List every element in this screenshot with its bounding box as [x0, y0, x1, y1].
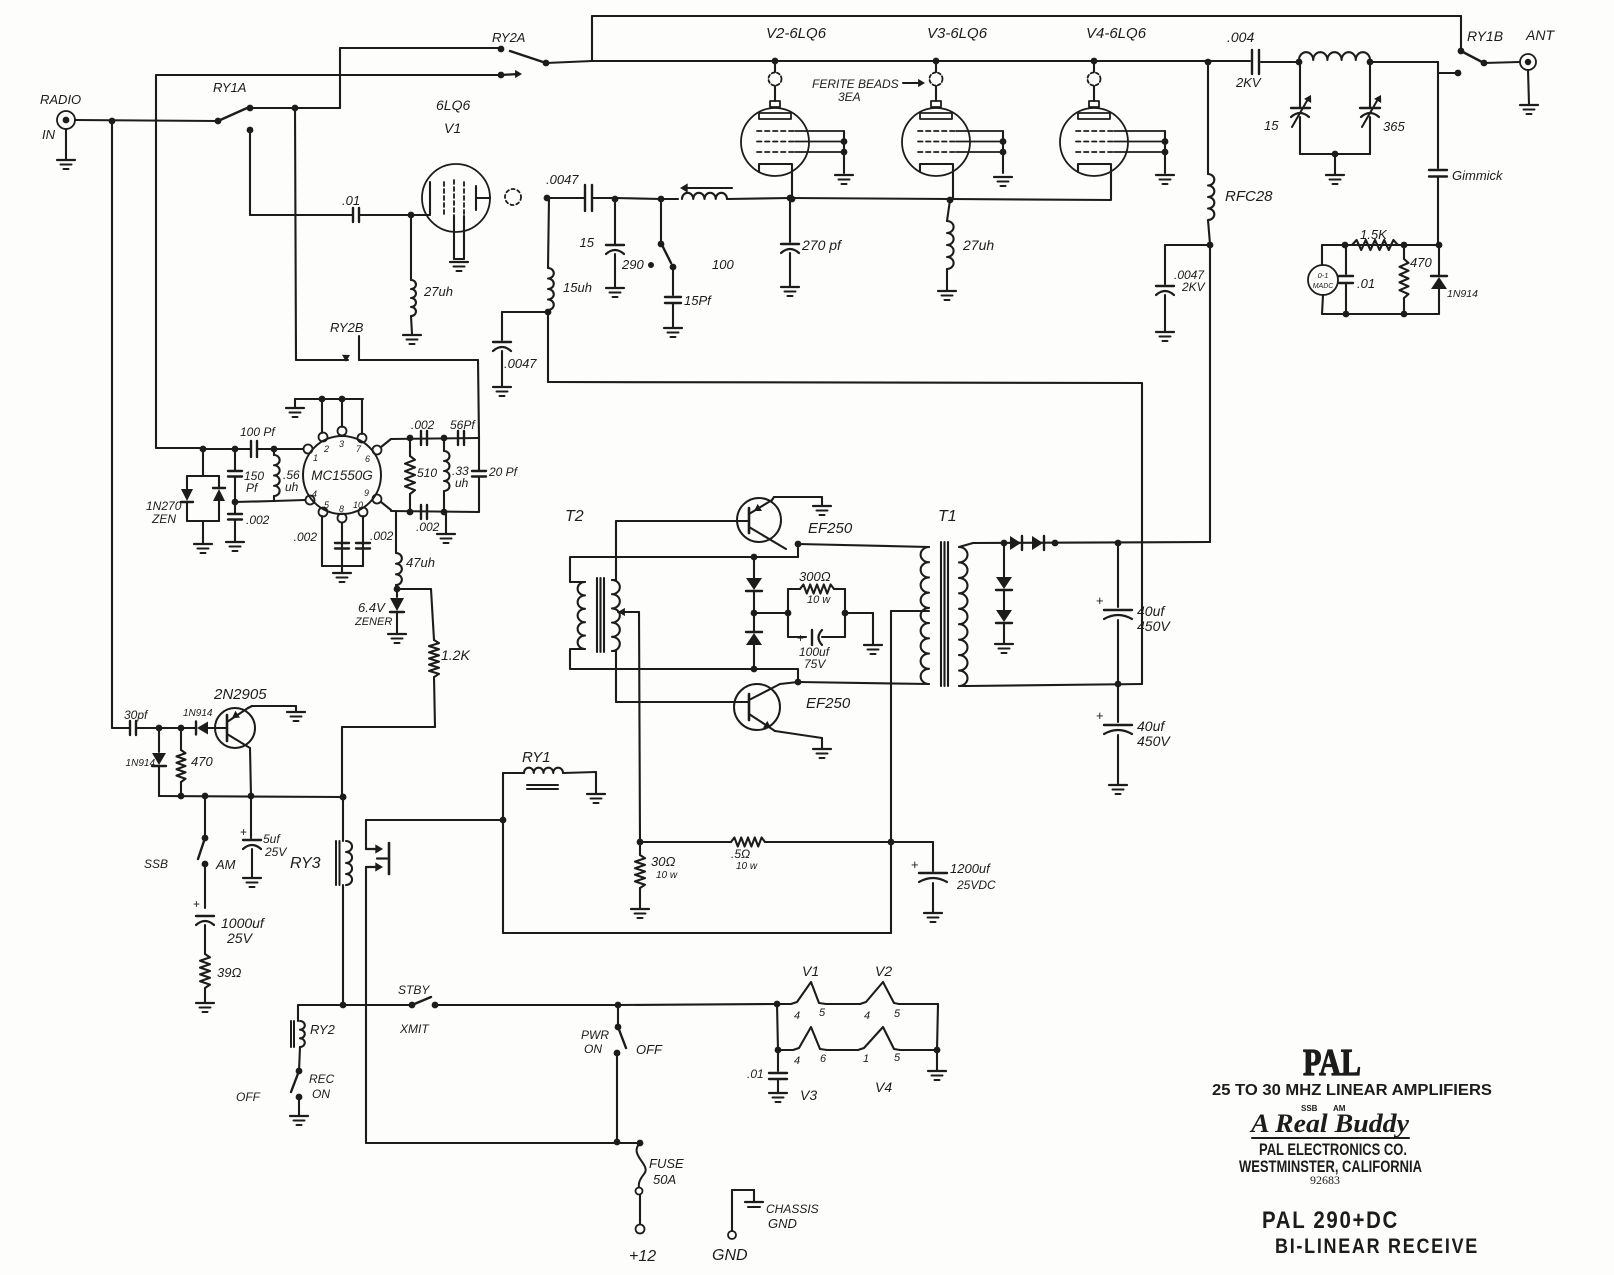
svg-text:RY1B: RY1B	[1467, 28, 1503, 44]
ground (mixer bottom)	[333, 573, 351, 582]
wire V1 grids to ground	[454, 216, 464, 259]
svg-text:10: 10	[353, 500, 363, 510]
ground (.0047)	[493, 351, 511, 396]
wire supply left vert	[502, 773, 504, 933]
node out2	[441, 435, 448, 442]
svg-text:T2: T2	[565, 508, 584, 525]
svg-text:3EA: 3EA	[838, 90, 861, 104]
wire supply right vert	[890, 842, 892, 933]
svg-text:.002: .002	[411, 418, 435, 432]
tank inductor	[1296, 52, 1374, 65]
wire tank to RY1B	[1370, 61, 1438, 63]
node 15uh bottom	[545, 309, 552, 316]
svg-text:15: 15	[1264, 118, 1279, 133]
svg-text:270 pf: 270 pf	[801, 237, 843, 253]
svg-text:2KV: 2KV	[1181, 280, 1206, 294]
resistor 1.5K	[1352, 227, 1398, 250]
svg-text:92683: 92683	[1310, 1173, 1340, 1187]
node bias mid	[751, 610, 758, 617]
diode zener 6.4V	[354, 589, 404, 633]
title Westminster	[1239, 1157, 1422, 1176]
svg-text:REC: REC	[309, 1072, 335, 1086]
wire heater feed	[618, 1004, 777, 1005]
svg-text:1200uf: 1200uf	[950, 861, 991, 876]
wire Q3 collector join	[780, 682, 798, 684]
wire zener node to 1.2K	[397, 589, 434, 640]
wire T2 primary bottom	[570, 649, 798, 682]
svg-text:V4: V4	[875, 1079, 892, 1095]
capacitor 20pf	[472, 438, 519, 512]
diode pair 1N270	[146, 449, 225, 543]
node fuse bus	[614, 1139, 621, 1146]
svg-text:40uf: 40uf	[1137, 718, 1166, 734]
node mixer in	[200, 446, 207, 453]
svg-text:SSB: SSB	[144, 857, 168, 871]
svg-text:FUSE: FUSE	[649, 1156, 684, 1171]
node Q2 collector	[795, 541, 802, 548]
svg-text:1.5K: 1.5K	[1360, 227, 1388, 242]
label SSB AM	[1301, 1104, 1346, 1113]
svg-text:RADIO: RADIO	[40, 92, 81, 107]
diode 1N914 (vert)	[126, 728, 166, 796]
transformer T2	[565, 508, 620, 652]
wire T2 sec top to base	[612, 521, 749, 580]
wire 15uh to .0047 bypass	[502, 312, 548, 340]
ground (RADIO IN)	[57, 160, 75, 169]
wire xmit return	[366, 1140, 643, 1147]
title 92683	[1310, 1173, 1340, 1187]
svg-text:40uf: 40uf	[1137, 603, 1166, 619]
svg-text:+: +	[193, 897, 200, 911]
svg-text:50A: 50A	[653, 1172, 676, 1187]
svg-text:RY1A: RY1A	[213, 80, 246, 95]
ground (clamp)	[995, 644, 1013, 653]
svg-text:V4-6LQ6: V4-6LQ6	[1086, 25, 1147, 42]
capacitor .0047 (plate coupling)	[546, 172, 615, 211]
svg-text:PWR: PWR	[581, 1028, 609, 1042]
svg-text:uh: uh	[285, 480, 299, 494]
node PWR	[615, 1002, 622, 1009]
svg-text:25 TO 30 MHZ LINEAR AMPLIFIERS: 25 TO 30 MHZ LINEAR AMPLIFIERS	[1212, 1082, 1492, 1099]
capacitor .002 (out top)	[411, 418, 435, 445]
capacitor 5uf 25V	[240, 796, 287, 877]
svg-text:.002: .002	[370, 529, 394, 543]
svg-text:RY2B: RY2B	[330, 320, 364, 335]
node 47uh bottom	[394, 586, 401, 593]
svg-text:T1: T1	[938, 508, 957, 525]
ground (ANT)	[1520, 105, 1538, 114]
svg-text:V2: V2	[875, 963, 892, 979]
ground (15pf)	[664, 328, 682, 337]
wire up to RY2A feed	[340, 48, 501, 108]
ferrite bead (V1 plate)	[505, 189, 521, 205]
wire RY2B link	[296, 320, 479, 438]
svg-text:V1: V1	[444, 120, 461, 136]
resistor 470 (Q1)	[177, 728, 214, 796]
svg-text:4: 4	[312, 489, 317, 499]
svg-text:.01: .01	[342, 193, 360, 208]
transformer T1	[921, 508, 968, 686]
svg-text:1N270: 1N270	[146, 499, 182, 513]
inductor 47uh	[396, 512, 435, 589]
svg-text:1: 1	[863, 1053, 869, 1065]
ground (39 ohm)	[196, 1003, 214, 1012]
svg-text:.5Ω: .5Ω	[731, 847, 750, 861]
svg-text:ZENER: ZENER	[354, 616, 392, 628]
ground (40uf lower)	[1109, 785, 1127, 794]
wire Q1 emitter	[248, 706, 296, 711]
transistor Q3 EF250 (lower)	[734, 684, 851, 731]
wire left column down	[111, 121, 113, 728]
wire HV vertical	[1209, 245, 1211, 542]
ground (V4 grids)	[1156, 175, 1174, 184]
capacitor 56pf	[450, 418, 476, 445]
wire RY1A NO to top corner	[250, 107, 340, 109]
svg-text:2N2905: 2N2905	[213, 686, 267, 703]
svg-text:27uh: 27uh	[423, 284, 453, 299]
wire heater top right	[899, 1004, 938, 1050]
wire meter rail bottom	[1322, 311, 1439, 318]
switch PWR ON/OFF	[581, 1005, 663, 1142]
node supply right	[888, 839, 895, 846]
svg-text:0-1: 0-1	[1318, 271, 1329, 280]
svg-text:Pf: Pf	[246, 481, 259, 495]
svg-text:9: 9	[364, 488, 369, 498]
capacitor 40uf 450V (upper)	[1096, 543, 1171, 684]
svg-text:STBY: STBY	[398, 983, 430, 997]
svg-text:10 w: 10 w	[736, 861, 758, 872]
svg-text:15Pf: 15Pf	[684, 293, 712, 308]
svg-text:.01: .01	[747, 1067, 764, 1081]
inductor 15uh	[548, 268, 592, 312]
resistor 470 (meter)	[1400, 245, 1433, 314]
svg-text:RY3: RY3	[290, 855, 321, 872]
svg-text:BI-LINEAR RECEIVE: BI-LINEAR RECEIVE	[1275, 1235, 1479, 1258]
diode 1N914 (horiz)	[159, 708, 227, 735]
ground (V1 grids)	[450, 262, 468, 271]
capacitor .01 (heater)	[747, 1050, 787, 1092]
diode D1 (bias)	[746, 557, 762, 612]
diode D4 (rect)	[1032, 536, 1044, 550]
title PAL Electronics	[1259, 1140, 1407, 1159]
svg-text:.01: .01	[1357, 276, 1375, 291]
tube V2 6LQ6	[741, 25, 847, 199]
wire stby bus	[298, 1002, 412, 1009]
svg-text:CHASSIS: CHASSIS	[766, 1202, 819, 1216]
svg-text:.002: .002	[416, 520, 440, 534]
ground (.0047 2KV)	[1156, 332, 1174, 341]
svg-text:+12: +12	[629, 1248, 656, 1265]
ground (27uh V1)	[403, 335, 421, 344]
svg-text:RFC28: RFC28	[1225, 188, 1273, 205]
capacitor .002 (pin10)	[356, 529, 394, 549]
relay contacts RY1B	[1438, 28, 1503, 76]
svg-text:PAL 290+DC: PAL 290+DC	[1262, 1207, 1399, 1234]
title PAL 290+DC	[1262, 1207, 1399, 1234]
svg-text:4: 4	[794, 1010, 800, 1022]
node T2 bottom junction	[751, 666, 758, 673]
capacitor 15pf	[665, 267, 712, 327]
svg-text:8: 8	[339, 504, 344, 514]
switch SSB/AM	[144, 796, 236, 872]
svg-text:V3-6LQ6: V3-6LQ6	[927, 25, 988, 42]
capacitor 30pf	[112, 708, 159, 735]
svg-text:365: 365	[1383, 119, 1405, 134]
svg-text:MC1550G: MC1550G	[311, 468, 373, 483]
svg-text:.0047: .0047	[546, 172, 579, 187]
wire T2 center tap	[618, 608, 640, 842]
resistor .5 ohm 10w	[640, 838, 891, 873]
inductor 27uh (V3)	[947, 200, 994, 290]
svg-text:2KV: 2KV	[1235, 75, 1262, 90]
svg-text:AM: AM	[215, 857, 236, 872]
ground (Q1 emitter)	[287, 712, 305, 721]
wire tank bottom	[1300, 151, 1370, 174]
node 300 net right	[842, 610, 849, 617]
svg-text:ON: ON	[584, 1042, 602, 1056]
svg-text:V1: V1	[802, 963, 819, 979]
node V2 cathode	[787, 195, 794, 202]
wire base bias bus	[159, 793, 346, 801]
resistor 30 ohm 10w	[635, 842, 678, 908]
svg-text:uh: uh	[455, 476, 469, 490]
plate bus wire	[592, 60, 1250, 62]
switch 100	[658, 199, 735, 272]
svg-text:V2-6LQ6: V2-6LQ6	[766, 25, 827, 42]
node 40uf mid	[1115, 681, 1122, 688]
svg-text:39Ω: 39Ω	[217, 965, 241, 980]
node sw100	[658, 196, 665, 203]
svg-text:290: 290	[621, 257, 644, 272]
capacitor .0047 (screen bypass)	[493, 342, 537, 371]
wire supply bottom rail	[503, 932, 891, 934]
terminal GND	[712, 1190, 754, 1264]
wire HV horizontal	[973, 542, 1210, 543]
ground (RY1)	[587, 794, 605, 803]
svg-text:1N914: 1N914	[183, 708, 213, 719]
capacitor .0047 2KV (HV bypass)	[1156, 245, 1210, 331]
inductor .56uh	[274, 449, 300, 501]
svg-text:.0047: .0047	[504, 356, 537, 371]
capacitor .01 (V1 input)	[342, 193, 360, 222]
node RY1 feed	[500, 817, 507, 824]
svg-text:75V: 75V	[804, 657, 826, 671]
capacitor .002 (out bottom)	[416, 505, 440, 534]
capacitor .004 2KV	[1227, 29, 1299, 90]
svg-text:RY2A: RY2A	[492, 30, 525, 45]
svg-text:1N914: 1N914	[126, 758, 156, 769]
svg-text:6.4V: 6.4V	[358, 600, 386, 615]
svg-text:1.2K: 1.2K	[441, 647, 470, 663]
wire bias to 300 ohm net	[754, 610, 791, 617]
resistor 39 ohm	[200, 954, 241, 1002]
node 30pf out	[156, 725, 163, 732]
svg-text:OFF: OFF	[636, 1042, 663, 1057]
script A Real Buddy	[1249, 1109, 1410, 1138]
switch REC ON/OFF	[236, 1068, 335, 1115]
ground (V3 grids)	[994, 177, 1012, 186]
ground (RY2)	[290, 1116, 308, 1125]
wire .01 to V1 cathode	[360, 212, 430, 219]
wire T1 primary bottom	[798, 682, 929, 684]
svg-text:56Pf: 56Pf	[450, 418, 476, 432]
svg-text:RY2: RY2	[310, 1022, 336, 1037]
svg-text:5: 5	[819, 1007, 826, 1019]
svg-text:4: 4	[794, 1055, 800, 1067]
heater V1	[777, 963, 826, 1022]
ground (27uh V3)	[938, 291, 956, 300]
node out1	[407, 435, 414, 442]
svg-text:10 w: 10 w	[656, 870, 678, 881]
variable capacitor 15	[1264, 62, 1311, 154]
svg-text:300Ω: 300Ω	[799, 569, 831, 584]
diode 1N914 (meter)	[1431, 245, 1478, 314]
svg-text:A Real Buddy: A Real Buddy	[1249, 1109, 1410, 1138]
node T2 top junction	[751, 554, 758, 561]
title BI-LINEAR RECEIVE	[1275, 1235, 1479, 1258]
inductor .33uh	[444, 438, 469, 512]
ground (heater right)	[928, 1071, 946, 1080]
wire pin9 out	[381, 502, 479, 515]
relay contacts RY2A	[492, 30, 549, 78]
relay contacts RY1A	[213, 80, 253, 133]
svg-text:15uh: 15uh	[563, 280, 592, 295]
svg-text:6: 6	[365, 454, 370, 464]
svg-text:EF250: EF250	[808, 520, 853, 537]
wire T1 center tap	[891, 611, 929, 842]
capacitor .002 (pin8)	[294, 530, 349, 549]
capacitor .002 (input)	[228, 502, 270, 541]
node heater left	[774, 1001, 781, 1008]
wire mixer pins 5-8-10 down	[322, 516, 363, 572]
op-amp U1 MC1550G	[303, 427, 382, 523]
relay coil RY1	[503, 749, 596, 793]
svg-text:GND: GND	[768, 1216, 797, 1231]
wire RADIO IN to RY1A	[75, 120, 218, 121]
svg-text:25VDC: 25VDC	[956, 878, 996, 892]
wire V1 plate node down (15uh feed)	[548, 198, 549, 268]
node 40uf top	[1115, 540, 1122, 547]
svg-text:ZEN: ZEN	[151, 512, 176, 526]
meter M1 0-1 MADC	[1308, 245, 1338, 314]
wire input to mixer	[156, 447, 203, 449]
node 150pf bottom	[232, 499, 239, 506]
wire mixer top bus	[295, 396, 363, 434]
relay contacts RY3 (fet style)	[366, 820, 389, 1143]
switch STBY/XMIT	[398, 983, 618, 1036]
node V2 cathode join	[789, 196, 796, 203]
wire RY2B feed vertical	[295, 108, 296, 360]
transistor Q1 2N2905	[213, 686, 267, 748]
svg-text:30Ω: 30Ω	[651, 854, 675, 869]
ground (1200uf)	[924, 913, 942, 922]
choke RFC28	[1208, 62, 1273, 244]
node var cap	[612, 196, 619, 203]
resistor 1.2K	[429, 640, 470, 727]
svg-text:ON: ON	[312, 1087, 330, 1101]
ground (Q2 emitter)	[813, 506, 831, 515]
svg-text:EF250: EF250	[806, 695, 851, 712]
svg-text:+: +	[1096, 708, 1104, 723]
svg-text:15: 15	[580, 235, 595, 250]
node supply mid	[637, 839, 644, 846]
heater V4	[827, 1027, 901, 1095]
relay coil RY3	[290, 794, 352, 1005]
capacitor .01 (meter)	[1339, 245, 1375, 314]
node rect in	[1001, 540, 1008, 547]
title 25 to 30 MHz	[1212, 1082, 1492, 1099]
capacitor 1000uf 25V	[193, 864, 266, 954]
diode D6 (clamp)	[996, 610, 1012, 643]
capacitor 100uf 75V	[788, 589, 845, 671]
wire Q2 emitter to ground	[772, 497, 822, 505]
node Q3 collector	[795, 679, 802, 686]
wire RY3 contact top	[366, 819, 503, 821]
wire T1 primary top	[798, 544, 929, 547]
svg-text:GND: GND	[712, 1247, 748, 1264]
wire cathode bus	[615, 198, 1111, 200]
svg-text:450V: 450V	[1137, 618, 1171, 634]
svg-text:5: 5	[894, 1052, 901, 1064]
svg-text:IN: IN	[42, 127, 56, 142]
svg-text:27uh: 27uh	[962, 237, 994, 253]
connector ANT	[1484, 27, 1555, 104]
transistor Q2 EF250 (upper)	[737, 498, 853, 549]
ground (out rail)	[437, 512, 455, 543]
svg-text:10 w: 10 w	[807, 594, 831, 606]
node rect out	[1052, 540, 1059, 547]
capacitor 150pf	[228, 449, 264, 502]
svg-text:5: 5	[894, 1008, 901, 1020]
capacitor 100pf	[203, 425, 303, 457]
svg-text:100: 100	[712, 257, 734, 272]
capacitor 1200uf 25VDC	[891, 842, 996, 912]
tube V1 6LQ6	[422, 97, 490, 232]
node heater right	[900, 1047, 940, 1070]
svg-text:.004: .004	[1227, 29, 1254, 45]
wire Q1 collector	[250, 748, 251, 796]
wire pin6 out	[381, 438, 479, 447]
wire to pin4	[235, 500, 305, 502]
svg-text:1N914: 1N914	[1447, 288, 1478, 300]
svg-text:+: +	[1096, 593, 1104, 608]
svg-text:ANT: ANT	[1525, 27, 1555, 43]
diode D2 (bias)	[746, 613, 762, 669]
tube V4 6LQ6	[1060, 25, 1168, 199]
wire heater mid	[775, 1004, 782, 1053]
svg-text:+: +	[797, 631, 804, 645]
ground (mixer top)	[286, 408, 304, 417]
resistor 510	[405, 438, 437, 512]
node V3 cathode join	[947, 197, 954, 204]
svg-text:30pf: 30pf	[124, 708, 149, 722]
svg-text:V3: V3	[800, 1087, 817, 1103]
svg-text:OFF: OFF	[236, 1090, 261, 1104]
wire RY1A NC branch	[250, 130, 352, 215]
logo PAL	[1303, 1042, 1361, 1084]
wire receive line y75	[156, 75, 501, 448]
diode D5 (clamp)	[996, 543, 1012, 610]
svg-text:450V: 450V	[1137, 733, 1171, 749]
wire 300 net to ground	[845, 613, 873, 644]
node RFC28 top	[1205, 59, 1212, 66]
ground (270pf)	[781, 287, 799, 296]
svg-text:100 Pf: 100 Pf	[240, 425, 276, 439]
svg-text:3: 3	[339, 439, 344, 449]
svg-text:+: +	[911, 857, 919, 872]
svg-text:47uh: 47uh	[406, 555, 435, 570]
ground (30 ohm)	[631, 909, 649, 918]
